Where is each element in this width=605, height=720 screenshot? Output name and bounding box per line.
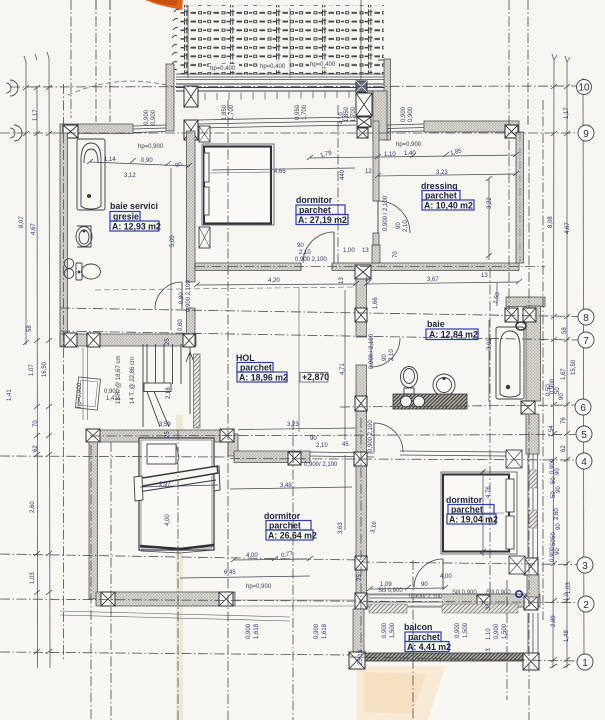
svg-text:1,618: 1,618 — [254, 623, 260, 639]
svg-text:1,03: 1,03 — [30, 572, 36, 584]
svg-text:0,900 / 2,100: 0,900 / 2,100 — [383, 195, 389, 231]
top wall right window — [387, 124, 424, 132]
svg-text:3,67: 3,67 — [427, 277, 439, 283]
svg-text:90: 90 — [555, 548, 561, 555]
svg-text:0,50: 0,50 — [546, 384, 552, 396]
svg-text:parchet: parchet — [299, 205, 331, 215]
svg-text:8,08: 8,08 — [548, 216, 554, 228]
svg-text:1,54: 1,54 — [549, 425, 555, 437]
svg-text:A: 18,96 m2: A: 18,96 m2 — [239, 373, 288, 383]
svg-text:1,700: 1,700 — [229, 104, 235, 120]
svg-text:1,40: 1,40 — [404, 151, 416, 157]
svg-text:4,00: 4,00 — [440, 574, 452, 580]
svg-text:parchet: parchet — [408, 632, 440, 642]
svg-text:4,76: 4,76 — [486, 486, 492, 498]
sink — [76, 226, 92, 247]
0,900 0,900 pair right — [144, 106, 414, 125]
svg-text:HOL: HOL — [236, 353, 255, 363]
svg-text:0,900/ 2,100: 0,900/ 2,100 — [304, 462, 338, 468]
svg-text:0,90: 0,90 — [179, 292, 185, 304]
svg-text:hp=0,400: hp=0,400 — [310, 62, 336, 68]
roof shingle hatch field — [172, 0, 384, 80]
svg-text:0,900: 0,900 — [314, 623, 320, 639]
svg-text:90: 90 — [555, 468, 561, 475]
dressing dims — [307, 152, 519, 160]
svg-text:0,900 2,100: 0,900 2,100 — [295, 257, 327, 263]
svg-text:hp=0,900: hp=0,900 — [77, 382, 83, 408]
svg-text:70: 70 — [393, 251, 399, 258]
svg-text:1,66: 1,66 — [373, 297, 379, 309]
svg-text:0,900: 0,900 — [408, 106, 414, 122]
top wall window mid (197-356) — [198, 117, 356, 128]
svg-text:hp=0,400: hp=0,400 — [210, 66, 236, 72]
svg-text:90: 90 — [421, 582, 428, 588]
svg-text:5: 5 — [581, 430, 587, 441]
window tick marks along top wall — [205, 91, 349, 100]
svg-text:1,41: 1,41 — [7, 389, 13, 401]
svg-text:+2,870: +2,870 — [302, 372, 329, 382]
svg-text:parchet: parchet — [425, 191, 457, 201]
top wall right stipple — [424, 121, 519, 132]
svg-text:A: 26,64 m2: A: 26,64 m2 — [268, 531, 317, 541]
svg-text:4,00: 4,00 — [246, 553, 258, 559]
svg-text:90: 90 — [556, 523, 562, 530]
svg-text:90: 90 — [310, 436, 317, 442]
small circle marker near sill — [516, 591, 522, 597]
svg-text:90: 90 — [559, 393, 565, 400]
svg-text:0,900: 0,900 — [246, 623, 252, 639]
svg-text:1,67: 1,67 — [561, 368, 567, 380]
svg-text:parchet: parchet — [269, 521, 301, 531]
paper crease vertical — [176, 415, 183, 720]
svg-text:1,07: 1,07 — [29, 364, 35, 376]
upper-right edge wall — [384, 59, 391, 140]
svg-text:50: 50 — [555, 387, 561, 394]
bottom thick edge — [140, 545, 214, 549]
svg-text:1,10: 1,10 — [486, 628, 492, 640]
hp=0,400 labels on bottom roof row — [209, 64, 239, 71]
left partial axis circles — [10, 80, 18, 96]
svg-text:2,18: 2,18 — [166, 387, 172, 399]
svg-text:4,00: 4,00 — [165, 514, 171, 526]
svg-text:90: 90 — [297, 243, 304, 249]
svg-text:2,10: 2,10 — [316, 443, 328, 449]
small blue value clusters right edge — [546, 378, 565, 562]
svg-text:3: 3 — [582, 561, 588, 572]
svg-text:3,02: 3,02 — [487, 338, 493, 350]
svg-text:dressing: dressing — [421, 181, 458, 191]
svg-text:4,65: 4,65 — [274, 169, 286, 175]
svg-text:1,14: 1,14 — [104, 157, 116, 163]
svg-text:A: 10,40 m2: A: 10,40 m2 — [424, 201, 473, 211]
window section — [133, 125, 166, 133]
svg-text:1,03: 1,03 — [566, 582, 572, 594]
svg-text:25: 25 — [357, 574, 363, 581]
svg-text:2,10: 2,10 — [299, 250, 311, 256]
svg-text:Sill 0,900: Sill 0,900 — [486, 590, 511, 596]
svg-text:0,900 / 2,100: 0,900 / 2,100 — [369, 333, 375, 369]
svg-text:A: 4,41 m2: A: 4,41 m2 — [407, 642, 451, 652]
left folded panel — [134, 476, 143, 501]
svg-text:0,900: 0,900 — [382, 622, 388, 638]
svg-text:dormitor: dormitor — [446, 495, 483, 505]
svg-text:25,13: 25,13 — [358, 649, 364, 665]
svg-text:2,10: 2,10 — [389, 349, 395, 361]
wall connecting right stack down — [373, 91, 387, 140]
upper-left edge wall — [166, 64, 174, 131]
svg-text:4,20: 4,20 — [268, 278, 280, 284]
top wall left section — [60, 124, 133, 134]
left closet tilted — [75, 377, 100, 410]
svg-text:6,45: 6,45 — [224, 570, 236, 576]
svg-text:2,97: 2,97 — [159, 482, 171, 488]
svg-text:2: 2 — [583, 600, 589, 611]
svg-text:90: 90 — [556, 486, 562, 493]
svg-text:440: 440 — [340, 169, 346, 180]
svg-text:parchet: parchet — [240, 363, 272, 373]
svg-text:50: 50 — [551, 477, 557, 484]
svg-text:3,63: 3,63 — [338, 522, 344, 534]
svg-text:50: 50 — [551, 539, 557, 546]
column stack upper-middle — [356, 81, 372, 138]
svg-text:1,10: 1,10 — [384, 152, 396, 158]
terrace texts 1,850/1,700 — [222, 104, 357, 122]
svg-text:4: 4 — [581, 457, 587, 468]
svg-text:25: 25 — [165, 431, 171, 438]
svg-text:25: 25 — [165, 338, 171, 345]
svg-text:hp=0,900: hp=0,900 — [246, 584, 272, 590]
svg-text:baie: baie — [427, 319, 445, 329]
svg-text:8: 8 — [583, 313, 589, 324]
svg-text:A: 12,84 m2: A: 12,84 m2 — [429, 330, 478, 340]
dashed roof overhang arc top-left — [68, 81, 174, 95]
svg-text:3,59: 3,59 — [159, 422, 171, 428]
upper terrace window band — [176, 74, 384, 80]
peach blob bottom — [357, 666, 445, 720]
column stack upper-left — [184, 86, 198, 140]
svg-text:Sill 0,900: Sill 0,900 — [452, 590, 477, 596]
door bedroom1 (mid wall) — [303, 232, 334, 263]
aux construction lines — [298, 287, 300, 432]
svg-text:Sill 0,900: Sill 0,900 — [378, 588, 403, 594]
svg-text:0,90: 0,90 — [141, 158, 153, 164]
svg-text:50: 50 — [551, 532, 557, 539]
svg-text:hp=0,900: hp=0,900 — [396, 142, 422, 148]
svg-text:A: 12,93 m2: A: 12,93 m2 — [112, 222, 161, 232]
balcony dims — [246, 622, 508, 639]
door dressing — [378, 201, 410, 233]
svg-text:A: 27,19 m2: A: 27,19 m2 — [298, 215, 347, 225]
svg-text:13: 13 — [339, 277, 345, 284]
top short grid stubs — [71, 0, 110, 122]
svg-text:70: 70 — [33, 420, 39, 427]
washer circles — [64, 259, 74, 279]
svg-text:dormitor: dormitor — [264, 511, 301, 521]
svg-text:1: 1 — [582, 658, 588, 669]
counter baie — [393, 394, 467, 409]
rafter lines through roof — [187, 5, 189, 78]
window sill hatches balcony side — [369, 604, 407, 613]
svg-text:14 T. @ 22,86 cm: 14 T. @ 22,86 cm — [130, 357, 136, 404]
svg-text:16,50: 16,50 — [42, 361, 48, 377]
svg-text:1,48: 1,48 — [564, 630, 570, 642]
svg-text:0,60: 0,60 — [178, 319, 184, 331]
svg-text:13: 13 — [481, 273, 488, 279]
upper terrace wall band — [176, 84, 384, 91]
svg-text:1,500: 1,500 — [502, 623, 508, 639]
svg-text:8,07: 8,07 — [19, 216, 25, 228]
svg-text:2,10: 2,10 — [403, 220, 409, 232]
svg-text:62: 62 — [561, 445, 567, 452]
svg-text:1,17: 1,17 — [564, 107, 570, 119]
corner column top-left — [63, 125, 78, 138]
svg-text:1,618: 1,618 — [322, 623, 328, 639]
bathtub baie — [496, 327, 524, 399]
svg-text:hp=0,400: hp=0,400 — [260, 64, 286, 70]
svg-text:baie servici: baie servici — [110, 201, 158, 211]
svg-text:2,60: 2,60 — [30, 501, 36, 513]
svg-text:1,500: 1,500 — [463, 622, 469, 638]
right bulge — [214, 466, 220, 491]
svg-text:0,900 2,100: 0,900 2,100 — [186, 280, 192, 312]
svg-text:90: 90 — [382, 354, 388, 361]
horizontal — [10, 86, 577, 87]
svg-text:9: 9 — [583, 129, 589, 140]
extra interior dimension lines — [140, 168, 497, 556]
svg-text:balcon: balcon — [404, 622, 432, 632]
door baie — [371, 338, 400, 367]
svg-text:58: 58 — [27, 325, 33, 332]
svg-text:0,900: 0,900 — [144, 109, 150, 125]
svg-text:38: 38 — [486, 603, 492, 610]
svg-text:3,22: 3,22 — [487, 197, 493, 209]
sink bowl baie — [433, 374, 455, 396]
door balcony — [414, 559, 443, 588]
svg-text:0,900 2,100: 0,900 2,100 — [368, 420, 374, 452]
svg-text:90: 90 — [396, 222, 402, 229]
toilet baie — [401, 367, 418, 395]
svg-text:0,900: 0,900 — [401, 106, 407, 122]
svg-text:2,89: 2,89 — [551, 615, 557, 627]
svg-text:1,0: 1,0 — [564, 592, 570, 601]
svg-text:7: 7 — [583, 336, 589, 347]
svg-text:12: 12 — [365, 169, 372, 175]
svg-text:6: 6 — [580, 403, 586, 414]
svg-text:0,900: 0,900 — [494, 623, 500, 639]
corner column top-right — [505, 125, 518, 138]
svg-text:62: 62 — [33, 445, 39, 452]
svg-text:0,900: 0,900 — [104, 389, 120, 395]
svg-text:13: 13 — [486, 648, 492, 655]
svg-text:5,00: 5,00 — [170, 235, 176, 247]
svg-text:0,900: 0,900 — [455, 622, 461, 638]
bathtub — [77, 139, 105, 210]
toilet — [76, 263, 101, 280]
svg-text:0,900: 0,900 — [151, 109, 157, 125]
svg-text:4,67: 4,67 — [565, 222, 571, 234]
svg-text:45: 45 — [342, 442, 349, 448]
svg-text:4,10: 4,10 — [339, 112, 345, 124]
svg-text:1,00: 1,00 — [343, 248, 355, 254]
svg-text:1,700: 1,700 — [351, 106, 357, 122]
svg-text:0,950: 0,950 — [295, 104, 301, 120]
nightstands bedroom1 — [199, 126, 210, 248]
orange torn paper top edge — [145, 0, 183, 10]
svg-text:hp=0,900: hp=0,900 — [138, 144, 164, 150]
svg-text:3,12: 3,12 — [124, 173, 136, 179]
door bathroom1 — [155, 282, 182, 309]
svg-text:parchet: parchet — [451, 505, 483, 515]
terrace edge lines below — [60, 611, 290, 617]
svg-text:2,60: 2,60 — [554, 508, 560, 520]
svg-text:76: 76 — [561, 417, 567, 424]
svg-text:1,500: 1,500 — [390, 622, 396, 638]
svg-text:58: 58 — [562, 327, 568, 334]
svg-text:A: 19,04 m2: A: 19,04 m2 — [449, 515, 498, 525]
svg-text:1,17: 1,17 — [33, 109, 39, 121]
boiler circle — [516, 322, 526, 330]
bathroom1 top dim — [87, 158, 192, 168]
svg-text:gresie: gresie — [113, 212, 139, 222]
nightstands bedroom2 — [506, 450, 525, 574]
door bedroom2 — [374, 423, 403, 452]
fold band — [136, 466, 218, 487]
roof row left hook marks — [172, 9, 179, 72]
svg-text:4,67: 4,67 — [31, 223, 37, 235]
svg-text:0,900/ 2,100: 0,900/ 2,100 — [409, 594, 443, 600]
svg-text:dormitor: dormitor — [296, 195, 333, 205]
vertical — [63, 84, 65, 660]
svg-text:3,23: 3,23 — [287, 422, 299, 428]
svg-text:15,50: 15,50 — [571, 359, 577, 375]
svg-text:10: 10 — [578, 83, 590, 94]
svg-text:13: 13 — [362, 248, 369, 254]
ticks — [23, 85, 52, 654]
svg-text:1,411: 1,411 — [106, 396, 121, 402]
svg-text:1,850: 1,850 — [222, 104, 228, 120]
